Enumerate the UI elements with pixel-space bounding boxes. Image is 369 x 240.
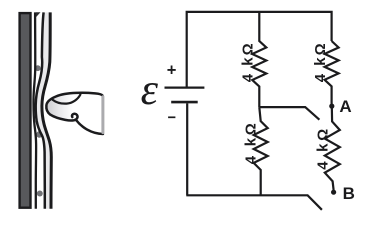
svg-text:4 kΩ: 4 kΩ bbox=[312, 41, 329, 82]
svg-text:A: A bbox=[339, 97, 351, 116]
svg-text:4 kΩ: 4 kΩ bbox=[239, 41, 256, 82]
svg-text:4 kΩ: 4 kΩ bbox=[242, 121, 259, 165]
svg-text:B: B bbox=[343, 184, 355, 203]
svg-text:4 kΩ: 4 kΩ bbox=[314, 126, 331, 170]
svg-text:+: + bbox=[167, 61, 177, 79]
svg-text:ε: ε bbox=[141, 65, 159, 114]
